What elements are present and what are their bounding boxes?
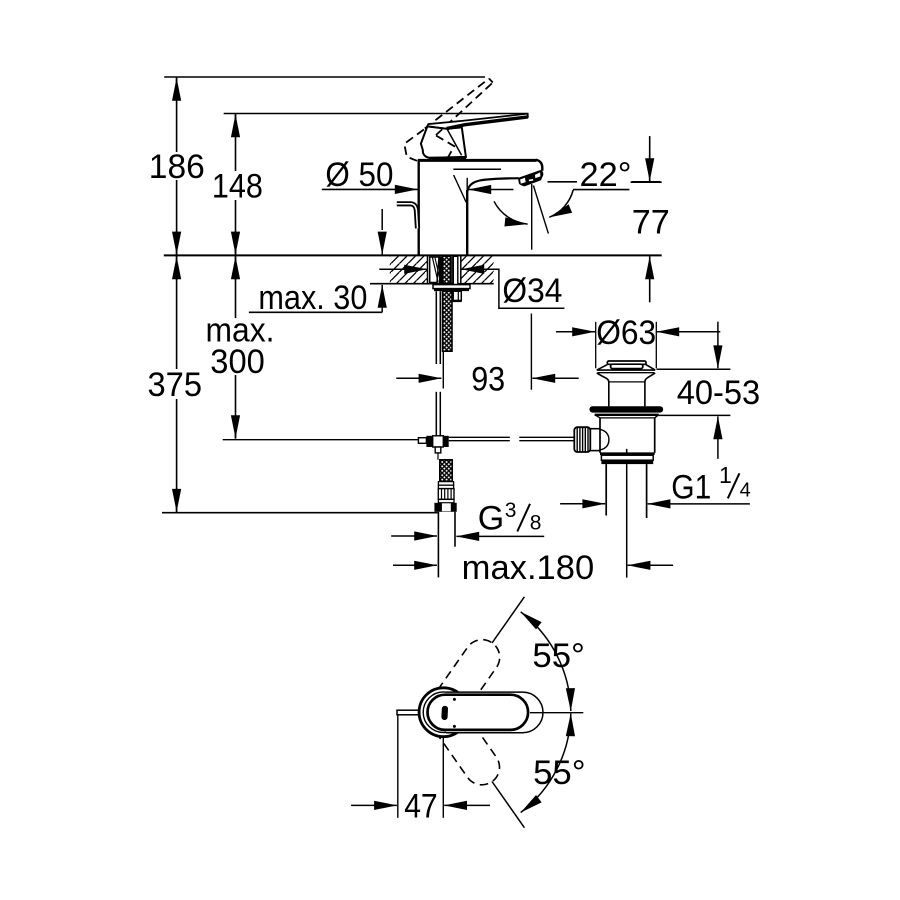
dashed swung lever down [420,689,507,792]
label 148 [209,171,266,200]
mounting hatch block [390,256,428,284]
deck nose [536,160,542,171]
55deg lower ray [492,782,524,828]
handle base [429,157,466,160]
stream slant line 22deg [533,186,548,234]
40-53 dim [657,368,731,370]
93 dim [530,314,532,390]
dashed raised lever [404,79,493,161]
extension tick above spout corner [466,178,468,190]
svg-text:93: 93 [471,360,505,398]
braided hose in hole [443,256,451,283]
55deg lower arc [521,713,571,812]
body circle plan [419,688,468,737]
svg-text:40-53: 40-53 [677,374,761,412]
svg-text:300: 300 [210,343,264,381]
inner circle plan [423,692,464,733]
svg-text:55°: 55° [533,754,586,792]
spout inner line [453,168,501,170]
vertical line under aerator [531,184,533,250]
logo blob [441,706,448,721]
drain valve body [599,418,601,453]
svg-text:77: 77 [632,203,670,241]
lever plan [428,695,529,730]
drain trumpet flange [597,365,608,371]
55deg upper arc [521,612,571,711]
max300 bottom reference line [223,439,419,441]
braided hose below counter [443,291,453,351]
spout footprint plan [446,692,543,733]
svg-text:Ø34: Ø34 [502,272,562,310]
lower braided hose [440,460,452,482]
svg-text:max.180: max.180 [462,549,595,587]
label 186 [146,152,207,180]
svg-text:22°: 22° [580,156,632,194]
55deg upper ray [492,597,524,643]
375 bottom reference line [162,512,438,514]
shank dark band [439,257,443,284]
svg-text:55°: 55° [532,637,585,675]
dashed swung lever up [420,633,507,736]
right arc of 22deg [549,190,573,217]
svg-text:186: 186 [149,148,205,186]
drain tailpipe [605,464,607,515]
dim line 186/375 [176,77,178,513]
reference line (148) [224,113,528,115]
knurled knob [574,427,590,452]
deck top [418,159,537,162]
horizontal pull rod bar [449,436,510,438]
drain plug top [607,361,646,364]
spout underside [467,178,518,191]
svg-text:max. 30: max. 30 [258,279,367,317]
Ø34 arrows and leader [379,268,427,270]
pop-up rod hook [397,204,418,229]
faucet body left edge [418,160,420,255]
faucet body right edge [466,190,468,255]
slanted line under spout [454,175,467,202]
counter top line [164,254,662,256]
drain O-ring [589,406,663,412]
drain centerline rod [626,449,628,578]
top reference line (186) [164,76,485,78]
horseshoe washer [433,285,470,289]
supply pipe G3/8 [437,512,439,578]
svg-text:47: 47 [404,788,438,826]
dots [453,698,456,701]
svg-text:G1: G1 [671,468,711,506]
label 375 [144,369,204,399]
svg-text:4: 4 [740,480,751,502]
label max. 300 [202,318,277,346]
aerator [519,170,543,186]
tee fitting [418,438,426,444]
supply stub plan [397,710,422,715]
handle blade [427,114,528,129]
hose end fittings [438,482,453,486]
svg-text:8: 8 [530,512,542,535]
dim line 148/max300 [235,114,237,439]
47 dim [397,716,399,818]
centerline plan [530,712,583,714]
svg-text:1: 1 [719,462,732,488]
valve bottom shoulder [600,452,655,455]
max.180 annotation [393,564,437,566]
counter bottom line [370,283,494,285]
22deg label lines [548,181,578,183]
pop-up rod upper segment [435,291,437,364]
handle knuckle [421,126,466,157]
valve side port [589,428,600,430]
svg-text:3: 3 [505,499,517,522]
G3/8 annotation [391,535,437,537]
svg-text:G: G [478,500,504,538]
fixing bolt in hole [453,256,458,284]
svg-text:Ø 50: Ø 50 [325,156,393,194]
G1 1/4 annotation [560,503,605,505]
left arc of 22deg [494,201,528,224]
svg-text:375: 375 [148,366,203,404]
max.30 annotation [255,282,370,310]
tee lower stub [435,447,441,453]
svg-text:148: 148 [212,168,263,206]
bolt lower block [453,291,461,300]
Ø63 dim [556,331,595,333]
wedge in mounting hole [430,257,439,283]
pop-up rod lower segment [435,392,437,436]
77 dim [649,136,651,180]
svg-text:Ø63: Ø63 [596,314,656,352]
